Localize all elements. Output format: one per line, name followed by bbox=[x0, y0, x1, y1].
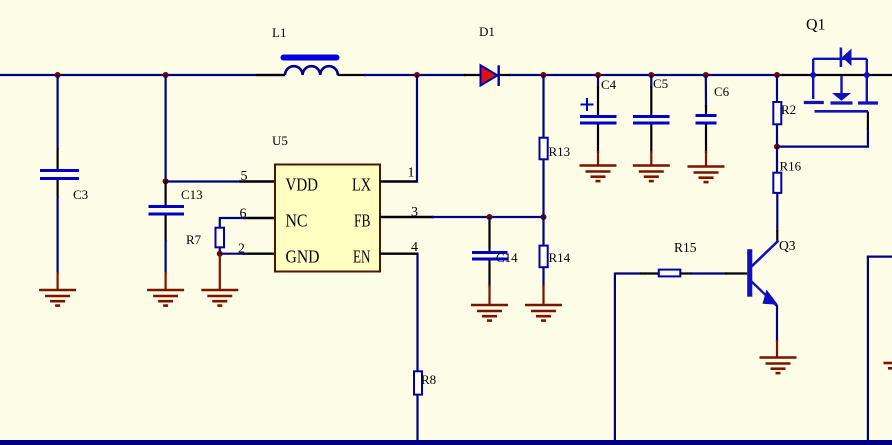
wire C13 lead bbox=[165, 181, 167, 206]
ground C6 bbox=[688, 167, 725, 183]
wire C4 to ground bbox=[597, 125, 599, 154]
pin 6 NC bbox=[243, 217, 275, 219]
svg-text:C6: C6 bbox=[714, 84, 730, 99]
wire C6 to ground bbox=[705, 125, 707, 154]
svg-text:EN: EN bbox=[353, 247, 371, 267]
node R7/GND junction bbox=[217, 251, 223, 257]
wire C5 lead bbox=[650, 75, 652, 88]
resistor R2 bbox=[773, 102, 781, 124]
ground C4 bbox=[580, 166, 617, 182]
op-amp U5 body bbox=[275, 165, 380, 272]
node C6 junction bbox=[703, 72, 709, 78]
node FB/R13/R14 junction bbox=[541, 214, 547, 220]
pin 3 FB bbox=[380, 216, 434, 218]
wire R15 to Q3 base bbox=[680, 272, 692, 274]
wire Q1 internal drain link bbox=[813, 74, 867, 76]
node C13/VDD junction bbox=[163, 178, 169, 184]
wire EN down to bottom bbox=[416, 254, 418, 372]
wire D1 anode pin bbox=[464, 74, 481, 76]
wire C14 lead bbox=[488, 217, 490, 223]
node C3 junction bbox=[55, 72, 61, 78]
svg-text:L1: L1 bbox=[272, 25, 286, 40]
wire right edge horizontal bbox=[867, 256, 892, 258]
node C4 junction bbox=[595, 72, 601, 78]
ground R14 bbox=[525, 305, 562, 321]
svg-text:3: 3 bbox=[411, 205, 418, 220]
pin 4 EN bbox=[380, 252, 419, 254]
wire R7 to node bbox=[219, 247, 221, 254]
ground C14 bbox=[471, 305, 508, 321]
svg-text:C4: C4 bbox=[601, 77, 617, 92]
drain arrow bbox=[832, 93, 851, 101]
wire R7 node to ground bbox=[219, 254, 221, 289]
wire rail L1 pin left bbox=[256, 74, 285, 76]
source bar bbox=[804, 101, 824, 104]
ground C5 bbox=[633, 166, 670, 182]
wire R2 top lead bbox=[776, 75, 778, 103]
capacitor C13 bbox=[149, 207, 185, 215]
wire C4 lead bbox=[597, 75, 599, 88]
wire C13 branch from rail bbox=[165, 75, 167, 181]
node R13 junction on rail bbox=[540, 72, 546, 78]
svg-text:NC: NC bbox=[286, 211, 308, 231]
wire NC to R7 bbox=[219, 217, 245, 219]
wire R13 top lead bbox=[542, 75, 544, 139]
svg-text:R14: R14 bbox=[549, 250, 571, 265]
wire rail D1 to R2 node bbox=[509, 74, 784, 76]
wire FB net bbox=[432, 216, 545, 218]
wire gate net horizontal bbox=[777, 146, 869, 148]
wire R16 to Q3 collector bbox=[776, 193, 778, 232]
wire C14 to ground bbox=[488, 261, 490, 288]
node C13 branch junction on rail bbox=[163, 72, 169, 78]
node R2/R16/gate junction bbox=[774, 144, 780, 150]
svg-text:C14: C14 bbox=[496, 250, 518, 265]
drain vertical bbox=[866, 75, 868, 103]
svg-text:R15: R15 bbox=[674, 240, 697, 255]
resistor R8 bbox=[414, 371, 422, 394]
capacitor C4 bbox=[580, 117, 617, 124]
resistor R16 bbox=[773, 173, 781, 193]
svg-text:R8: R8 bbox=[421, 372, 436, 387]
wire GND net bbox=[220, 253, 245, 255]
resistor R14 bbox=[540, 246, 548, 268]
capacitor C5 bbox=[633, 117, 670, 124]
wire C13 to ground bbox=[165, 216, 167, 243]
wire Q1 drain pin right bbox=[867, 74, 892, 76]
svg-text:C5: C5 bbox=[653, 76, 668, 91]
svg-text:LX: LX bbox=[352, 175, 371, 195]
wire gate net vertical bbox=[867, 128, 869, 148]
svg-text:1: 1 bbox=[408, 166, 415, 181]
svg-text:C13: C13 bbox=[181, 187, 203, 202]
drain dot bbox=[864, 72, 870, 78]
resistor R7 bbox=[216, 228, 225, 248]
wire C3 to ground bbox=[56, 180, 58, 198]
svg-text:R7: R7 bbox=[186, 232, 202, 247]
drain arrow vertical bbox=[840, 76, 842, 94]
node R2 junction on rail bbox=[774, 72, 780, 78]
source vertical bbox=[812, 75, 814, 99]
pin 1 LX bbox=[380, 180, 418, 182]
svg-text:FB: FB bbox=[354, 211, 371, 231]
wire R14 top lead bbox=[542, 217, 544, 247]
pin 5 VDD bbox=[239, 180, 275, 182]
svg-text:6: 6 bbox=[240, 207, 247, 222]
capacitor C6 bbox=[696, 116, 717, 124]
wire VDD net bbox=[166, 180, 241, 182]
wire R2 to gate node bbox=[776, 124, 778, 147]
svg-text:R13: R13 bbox=[549, 144, 571, 159]
wire top rail left bbox=[0, 74, 285, 76]
body diode cathode bar bbox=[840, 48, 843, 68]
ground partial right edge bbox=[884, 363, 892, 368]
wire R15 base net bbox=[615, 272, 642, 274]
wire R13 to FB node bbox=[542, 159, 544, 218]
svg-text:4: 4 bbox=[411, 240, 418, 255]
wire rail L1 pin right bbox=[338, 74, 367, 76]
transistor Q3 bbox=[747, 241, 778, 306]
resistor R13 bbox=[540, 138, 548, 160]
wire R16 top lead bbox=[776, 147, 778, 174]
gate bar bbox=[815, 110, 869, 113]
ground R7 bbox=[201, 290, 238, 306]
transistor Q1 (P-MOSFET) bbox=[804, 48, 878, 112]
node LX junction on rail bbox=[414, 72, 420, 78]
wire LX to rail bbox=[416, 75, 418, 183]
polarity plus C4 bbox=[581, 98, 594, 111]
ground C13 bbox=[147, 290, 184, 306]
svg-text:5: 5 bbox=[241, 169, 248, 184]
wire R8 to bottom bus bbox=[416, 395, 418, 441]
wire right edge vertical bbox=[867, 257, 869, 442]
body diode right vertical bbox=[866, 59, 868, 75]
svg-text:Q3: Q3 bbox=[779, 238, 796, 253]
channel bar right bbox=[858, 101, 878, 104]
wire Q3 emitter to ground bbox=[776, 305, 778, 342]
svg-text:U5: U5 bbox=[272, 133, 288, 148]
node FB/C14 junction bbox=[487, 214, 493, 220]
wire Q1 source pin bbox=[782, 74, 813, 76]
wire R15 left vertical to bottom bbox=[614, 273, 616, 442]
svg-text:C3: C3 bbox=[73, 187, 88, 202]
body diode horizontal bbox=[813, 58, 867, 60]
ground Q3 emitter bbox=[760, 358, 797, 374]
svg-text:D1: D1 bbox=[479, 24, 495, 39]
wire C3 lead bbox=[56, 75, 58, 150]
node C5 junction bbox=[648, 72, 654, 78]
svg-text:R16: R16 bbox=[780, 159, 802, 174]
pin 2 GND bbox=[243, 252, 275, 254]
capacitor C14 bbox=[472, 253, 508, 260]
capacitor C3 bbox=[40, 171, 79, 179]
body diode triangle bbox=[842, 49, 852, 67]
resistor R15 bbox=[659, 270, 681, 277]
wire C6 lead bbox=[705, 75, 707, 107]
svg-text:R2: R2 bbox=[781, 102, 796, 117]
svg-text:Q1: Q1 bbox=[806, 17, 826, 34]
svg-text:VDD: VDD bbox=[286, 175, 319, 195]
body diode left vertical bbox=[812, 59, 814, 75]
source dot bbox=[810, 72, 816, 78]
wire R14 to ground bbox=[542, 267, 544, 287]
wire C5 to ground bbox=[650, 125, 652, 154]
ground C3 bbox=[39, 290, 76, 306]
wire rail L1 to D1 bbox=[364, 74, 466, 76]
channel bar mid bbox=[831, 101, 853, 104]
bottom bus bar bbox=[0, 440, 892, 445]
svg-text:GND: GND bbox=[286, 247, 320, 267]
diode D1 bbox=[481, 65, 512, 86]
inductor L1 bbox=[284, 58, 338, 76]
